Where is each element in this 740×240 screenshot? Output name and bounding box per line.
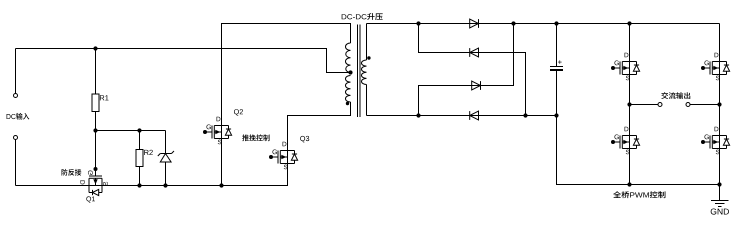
diode D2 <box>470 48 479 57</box>
transistor S1 H-bridge top-left MOSFET <box>611 53 640 81</box>
junction R2 top <box>137 128 141 132</box>
junction R2 bottom on ground rail <box>137 183 141 187</box>
junction AC output left tap <box>627 102 631 106</box>
junction row4 node B <box>416 113 420 117</box>
ground <box>711 201 729 215</box>
transformer T1 secondary winding <box>361 60 366 85</box>
wire DC input plus stub <box>15 49 17 94</box>
terminal DC input plus <box>14 94 18 98</box>
wire DC input minus down <box>15 140 17 186</box>
wire Q2 leg from primary top rail to ground rail <box>222 24 351 186</box>
junction row4 D2 anode <box>523 113 527 117</box>
wire secondary bottom lead <box>366 85 368 116</box>
transistor Q2 push-pull MOSFET <box>203 117 232 145</box>
wire row2 path from node A down through D2 to minus rail <box>419 24 526 116</box>
diode D1 <box>470 19 479 28</box>
wire AC output right <box>690 104 720 106</box>
label full-bridge PWM control <box>613 191 665 198</box>
label Q3 <box>300 136 309 142</box>
junction at R1 top on positive rail <box>93 46 97 50</box>
wire R1 branch from top rail <box>95 49 97 95</box>
label Q1 <box>86 196 95 202</box>
label anti-reverse protection <box>62 169 82 176</box>
wire secondary top lead <box>366 24 368 61</box>
transformer T1 core <box>357 25 359 118</box>
label R1 <box>100 95 109 100</box>
junction AC output right tap <box>717 102 721 106</box>
wire H-bridge right leg with GND stub <box>719 24 721 201</box>
junction left leg bottom <box>627 182 631 186</box>
polarity dot primary <box>346 102 349 105</box>
resistor R2 <box>136 150 143 167</box>
wire zener top lead <box>165 131 167 154</box>
capacitor C1 polarized <box>550 60 563 70</box>
wire row3 path from node B up through D3 to plus rail <box>419 24 514 116</box>
junction left leg top <box>627 21 631 25</box>
wire capacitor top lead <box>556 24 558 67</box>
junction capacitor top on plus rail <box>554 21 558 25</box>
junction Q2 source on ground rail <box>219 183 223 187</box>
wire H-bridge left leg <box>629 24 631 185</box>
wire rectifier row1 top rail <box>367 23 720 25</box>
label push-pull control <box>242 134 269 141</box>
wire capacitor bottom lead and bottom rail to ground <box>557 71 720 185</box>
junction row1 node A vertical <box>416 21 420 25</box>
junction transformer center tap <box>348 70 352 74</box>
wire R2 bottom lead <box>139 167 141 186</box>
junction zener bottom on ground rail <box>163 183 167 187</box>
label Q2 <box>234 109 243 115</box>
junction row1 <box>511 21 515 25</box>
label DC-DC boost <box>342 13 383 20</box>
transistor S2 H-bridge top-right MOSFET <box>701 53 730 81</box>
junction divider node <box>93 128 97 132</box>
zener diode D5 <box>158 151 174 162</box>
transistor Q1 anti-reverse MOSFET (rotated) <box>80 167 108 196</box>
wire row4 minus rail from secondary bottom to capacitor <box>367 115 557 117</box>
label R2 <box>144 150 153 155</box>
junction capacitor minus with rectifier minus rail <box>554 113 558 117</box>
wire R2 top lead <box>139 131 141 150</box>
terminal DC input minus <box>14 136 18 140</box>
wire divider node horizontal to R2 and zener <box>96 130 166 132</box>
transformer T1 primary lower winding <box>345 76 350 103</box>
wire zener bottom lead <box>165 162 167 186</box>
junction right leg bottom <box>717 182 721 186</box>
diode D4 <box>470 111 479 120</box>
terminal AC output left <box>658 103 662 107</box>
terminal AC output right <box>686 103 690 107</box>
transistor S4 H-bridge bottom-right MOSFET <box>701 127 730 155</box>
transformer T1 primary upper winding <box>346 43 351 73</box>
label AC output <box>661 92 690 99</box>
wire AC output left <box>630 104 659 106</box>
label DC input <box>7 113 30 120</box>
polarity dot secondary <box>367 56 370 59</box>
transistor S3 H-bridge bottom-left MOSFET <box>611 127 640 155</box>
resistor R1 <box>92 94 99 112</box>
diode D3 <box>472 81 481 90</box>
transistor Q3 push-pull MOSFET <box>269 142 298 170</box>
wire bottom-left ground rail through Q1 up to Q3 source and transformer bottom <box>16 102 351 186</box>
wire R1 bottom to Q1 gate <box>95 112 97 177</box>
wire top-left positive rail from DC input to transformer center tap <box>16 49 351 73</box>
